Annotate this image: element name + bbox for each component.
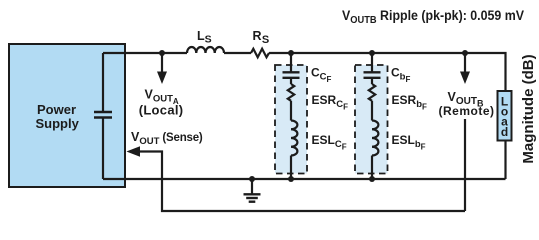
svg-text:RS: RS — [253, 29, 270, 46]
svg-text:ESLbF: ESLbF — [392, 133, 426, 151]
svg-text:VOUT (Sense): VOUT (Sense) — [131, 130, 203, 147]
svg-text:LS: LS — [197, 29, 212, 46]
svg-text:CbF: CbF — [391, 66, 410, 84]
svg-text:(Remote): (Remote) — [439, 104, 495, 118]
svg-text:ESRbF: ESRbF — [392, 93, 428, 111]
svg-text:(Local): (Local) — [139, 103, 184, 118]
svg-text:CCF: CCF — [311, 66, 332, 84]
svg-text:ESRCF: ESRCF — [312, 93, 349, 111]
svg-text:ESLCF: ESLCF — [312, 133, 347, 151]
svg-text:Supply: Supply — [36, 116, 80, 131]
svg-text:VOUTB Ripple (pk-pk): 0.059 mV: VOUTB Ripple (pk-pk): 0.059 mV — [342, 7, 524, 26]
svg-text:d: d — [501, 125, 508, 139]
svg-text:Magnitude (dB): Magnitude (dB) — [520, 54, 537, 163]
svg-text:Power: Power — [37, 102, 76, 117]
